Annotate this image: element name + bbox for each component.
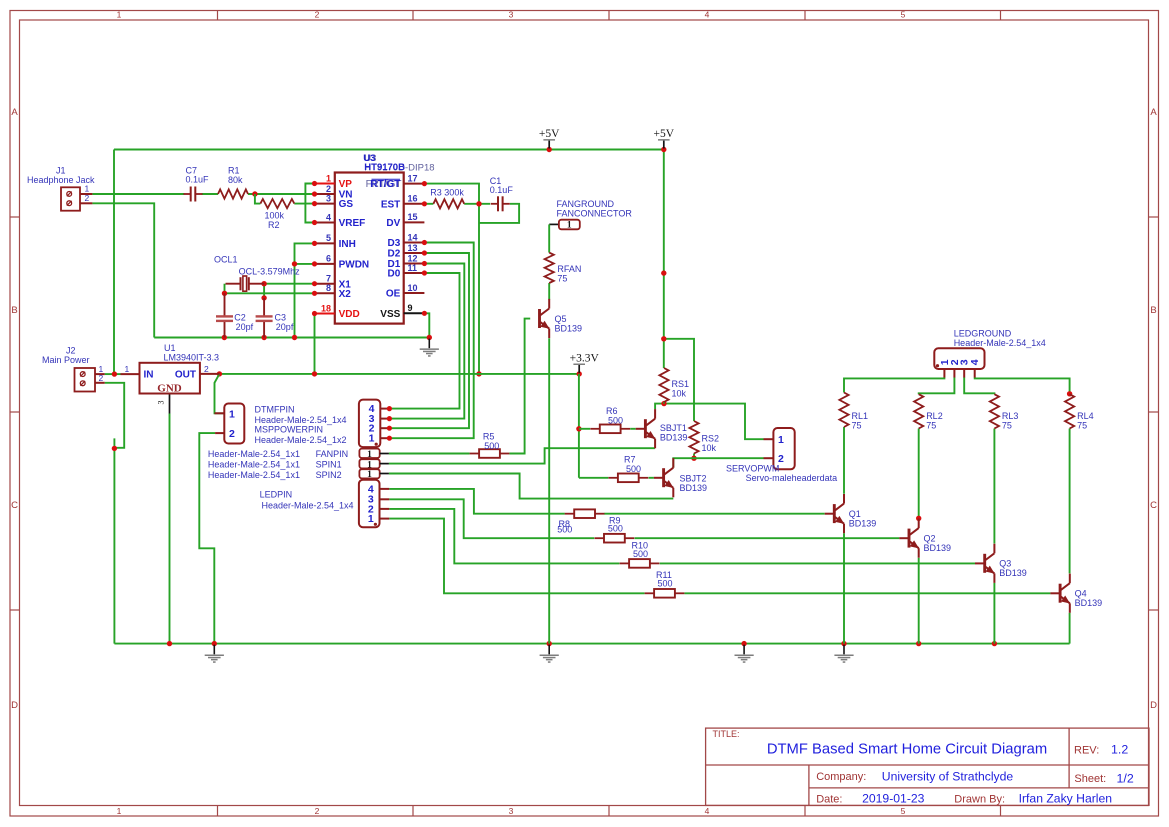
connector LEDPIN header 1x4 bbox=[359, 480, 380, 527]
svg-text:1: 1 bbox=[367, 470, 372, 480]
connector LEDGROUND header 1x4 bbox=[934, 348, 984, 369]
wire LEDPIN pin4 to R8 line bbox=[389, 489, 565, 514]
svg-text:3: 3 bbox=[157, 401, 166, 405]
svg-text:2019-01-23: 2019-01-23 bbox=[862, 792, 925, 806]
resistor R3 bbox=[433, 199, 464, 208]
wire VSS pin9 to ground bbox=[424, 313, 429, 337]
wire C7 to R1 bbox=[202, 193, 218, 195]
svg-text:OCL1: OCL1 bbox=[214, 254, 238, 264]
svg-text:SPIN2: SPIN2 bbox=[316, 470, 342, 480]
junction RS2 bottom bbox=[691, 456, 696, 461]
wire R1 node down to R2 bbox=[255, 194, 261, 204]
wire Q2 emitter to rail bbox=[918, 558, 920, 644]
svg-text:RL3: RL3 bbox=[1002, 411, 1019, 421]
pin 1 stub (left) bbox=[315, 183, 335, 185]
svg-text:Q2: Q2 bbox=[924, 534, 936, 544]
svg-text:D: D bbox=[11, 700, 18, 711]
junction RS1 bottom bbox=[661, 401, 666, 406]
junction +5V left symbol tap bbox=[547, 147, 552, 152]
svg-text:1: 1 bbox=[125, 364, 130, 374]
wire LEDGROUND pin1 to RL1 bbox=[844, 377, 944, 392]
svg-text:1.2: 1.2 bbox=[1111, 743, 1128, 757]
svg-text:R6: R6 bbox=[606, 406, 618, 416]
resistor RFAN bbox=[545, 253, 554, 283]
svg-text:75: 75 bbox=[1002, 421, 1012, 431]
svg-text:2: 2 bbox=[326, 184, 331, 194]
junction J2/+5V/IN node bbox=[112, 371, 117, 376]
svg-text:Header-Male-2.54_1x2: Header-Male-2.54_1x2 bbox=[255, 435, 347, 445]
svg-text:RS1: RS1 bbox=[672, 379, 690, 389]
wire +5V rail top bbox=[114, 149, 664, 151]
wire RS2 bottom to SERVOPWM pin2 line bbox=[693, 454, 695, 459]
svg-text:5: 5 bbox=[901, 9, 906, 19]
svg-text:3: 3 bbox=[326, 193, 331, 203]
wire J1 pin2 ground branch bbox=[92, 203, 154, 337]
svg-text:BD139: BD139 bbox=[849, 519, 877, 529]
svg-text:C: C bbox=[1150, 500, 1157, 511]
junction C2 top at X2 line bbox=[222, 291, 227, 296]
pin 3 stub (left) bbox=[315, 203, 335, 205]
wire Q3 emitter to rail bbox=[993, 583, 995, 644]
svg-text:Company:: Company: bbox=[816, 771, 866, 783]
junction R1/R2 node bbox=[252, 191, 257, 196]
connector FANPIN header 1x1 bbox=[359, 449, 379, 458]
wire R6 branch to base bbox=[579, 428, 590, 430]
svg-text:VP: VP bbox=[339, 179, 353, 190]
svg-text:LM3940IT-3.3: LM3940IT-3.3 bbox=[164, 352, 220, 362]
svg-text:2: 2 bbox=[315, 806, 320, 816]
wire RL2 to Q2 collector bbox=[918, 429, 920, 519]
pin 10 stub (right) bbox=[404, 292, 425, 294]
svg-text:R3 300k: R3 300k bbox=[430, 187, 464, 197]
junction U1 OUT pin bbox=[217, 371, 222, 376]
ground symbol right bbox=[843, 645, 845, 655]
svg-text:1: 1 bbox=[326, 173, 331, 183]
transistor Q4 BD139 bbox=[1060, 583, 1070, 603]
pin 18 stub (left) bbox=[315, 313, 335, 315]
resistor R10 bbox=[620, 562, 630, 564]
svg-text:Header-Male-2.54_1x4: Header-Male-2.54_1x4 bbox=[954, 338, 1046, 348]
wire Q1 emitter to rail bbox=[843, 533, 845, 643]
svg-text:Irfan Zaky Harlen: Irfan Zaky Harlen bbox=[1019, 792, 1112, 806]
IC U3 HT9170B DTMF decoder bbox=[335, 173, 404, 324]
junction Q5 emitter at rail bbox=[547, 641, 552, 646]
svg-text:BD139: BD139 bbox=[680, 483, 708, 493]
svg-text:X2: X2 bbox=[339, 289, 352, 300]
pin 6 stub (left) bbox=[315, 263, 335, 265]
svg-text:SBJT2: SBJT2 bbox=[680, 474, 707, 484]
svg-text:BD139: BD139 bbox=[660, 433, 688, 443]
wire LEDPIN pin1 to R11 line bbox=[389, 519, 644, 594]
wire R2 to IC pin3 GS bbox=[294, 203, 314, 205]
wire U1 OUT 3.3V rail bbox=[219, 373, 579, 375]
svg-text:PWDN: PWDN bbox=[339, 260, 370, 271]
svg-text:1/2: 1/2 bbox=[1117, 771, 1134, 785]
junction INH/PWDN node bbox=[292, 261, 297, 266]
wire SPIN1 to SBJT1 emitter bbox=[389, 448, 655, 463]
regulator U1 LM3940IT-3.3 bbox=[140, 363, 200, 394]
svg-text:16: 16 bbox=[408, 194, 418, 204]
svg-text:J2: J2 bbox=[66, 345, 76, 355]
svg-text:20pf: 20pf bbox=[276, 322, 294, 332]
svg-text:1: 1 bbox=[229, 408, 235, 420]
junction U1 GND at rail bbox=[167, 641, 172, 646]
svg-text:11: 11 bbox=[408, 263, 418, 273]
svg-text:Header-Male-2.54_1x1: Header-Male-2.54_1x1 bbox=[208, 459, 300, 469]
ground symbol center-left bbox=[548, 645, 550, 655]
wire J1 pin1 to C7 (audio in) bbox=[92, 193, 184, 195]
svg-text:D3: D3 bbox=[388, 238, 401, 249]
svg-text:REV:: REV: bbox=[1074, 745, 1099, 757]
junction Q2 emitter at rail bbox=[916, 641, 921, 646]
svg-text:BD139: BD139 bbox=[555, 323, 583, 333]
resistor R2 bbox=[260, 199, 294, 208]
svg-text:15: 15 bbox=[408, 212, 418, 222]
wire J2 pin1 to U1 IN bbox=[105, 373, 121, 375]
svg-text:RFAN: RFAN bbox=[557, 264, 581, 274]
svg-text:Header-Male-2.54_1x1: Header-Male-2.54_1x1 bbox=[208, 470, 300, 480]
resistor R1 bbox=[218, 189, 248, 198]
wire D0 IC pin11 to header bbox=[389, 273, 459, 409]
svg-text:1: 1 bbox=[778, 434, 784, 446]
junction RS1 top branch bbox=[661, 336, 666, 341]
svg-text:100k: 100k bbox=[265, 210, 285, 220]
crystal OCL1 bbox=[226, 283, 241, 285]
svg-text:75: 75 bbox=[852, 421, 862, 431]
svg-text:OCL-3.579Mhz: OCL-3.579Mhz bbox=[239, 267, 301, 277]
svg-text:Sheet:: Sheet: bbox=[1074, 773, 1106, 785]
wire OCL ground rail bbox=[154, 337, 429, 339]
wire VDD pin18 down to 3.3V rail bbox=[314, 314, 316, 374]
svg-text:2: 2 bbox=[315, 9, 320, 19]
svg-text:75: 75 bbox=[1077, 421, 1087, 431]
svg-text:+5V: +5V bbox=[539, 128, 560, 140]
junction Q3 emitter at rail bbox=[992, 641, 997, 646]
svg-text:5: 5 bbox=[901, 806, 906, 816]
wire LEDPIN pin2 to R10 line bbox=[389, 509, 619, 564]
wire LEDPIN pin3 to R9 line bbox=[389, 499, 594, 538]
wire X1 crystal left corner bbox=[224, 284, 226, 294]
pin 4 stub (left) bbox=[315, 222, 335, 224]
svg-text:INH: INH bbox=[339, 239, 356, 250]
svg-text:+3.3V: +3.3V bbox=[570, 353, 600, 365]
junction INH/PWDN at ground rail bbox=[292, 335, 297, 340]
resistor R9 bbox=[595, 537, 605, 539]
wire 3.3V branch down to R6/R7 bbox=[578, 374, 580, 478]
wire SBJT2 collector to SERVOPWM pin2 bbox=[673, 458, 763, 468]
wire RL1 to Q1 collector bbox=[843, 427, 845, 494]
resistor RL4 bbox=[1065, 394, 1074, 428]
wire D2 IC pin13 to header bbox=[389, 253, 469, 428]
svg-text:FANCONNECTOR: FANCONNECTOR bbox=[557, 208, 633, 218]
junction rail mid bbox=[741, 641, 746, 646]
svg-text:B: B bbox=[1150, 305, 1156, 316]
transistor Q3 BD139 bbox=[985, 553, 995, 573]
wire R5 to Q5 base bbox=[509, 319, 530, 454]
wire +5V rail right drop to RS1 bbox=[663, 150, 665, 369]
ground symbol left bbox=[213, 645, 215, 655]
svg-text:10k: 10k bbox=[672, 389, 687, 399]
svg-text:GS: GS bbox=[339, 199, 354, 210]
svg-text:EST: EST bbox=[381, 199, 400, 210]
svg-text:7: 7 bbox=[326, 274, 331, 284]
svg-text:Q4: Q4 bbox=[1075, 589, 1087, 599]
resistor R11 bbox=[645, 592, 655, 594]
wire U1 GND down to ground rail bbox=[169, 394, 171, 414]
svg-text:OUT: OUT bbox=[175, 370, 196, 381]
svg-text:4: 4 bbox=[705, 806, 710, 816]
svg-text:2: 2 bbox=[85, 193, 90, 203]
svg-text:3: 3 bbox=[509, 9, 514, 19]
connector J1 Headphone Jack bbox=[61, 187, 92, 210]
pin 15 stub (right) bbox=[404, 221, 425, 223]
pin 14 stub (right) bbox=[404, 242, 425, 244]
svg-text:GND: GND bbox=[157, 382, 182, 394]
svg-text:500: 500 bbox=[626, 464, 641, 474]
svg-text:BD139: BD139 bbox=[999, 568, 1027, 578]
capacitor C1 bbox=[491, 203, 498, 205]
wire D1 IC pin12 to header bbox=[389, 264, 464, 419]
svg-text:17: 17 bbox=[408, 173, 418, 183]
wire RFAN to Q5 collector bbox=[548, 283, 550, 300]
svg-text:LEDGROUND: LEDGROUND bbox=[954, 328, 1012, 338]
resistor RS2 bbox=[689, 421, 698, 454]
svg-text:VSS: VSS bbox=[380, 309, 400, 320]
svg-text:DTMF Based Smart Home Circuit: DTMF Based Smart Home Circuit Diagram bbox=[767, 742, 1047, 758]
svg-text:VREF: VREF bbox=[339, 218, 366, 229]
wire RS1/RS2 top branch bbox=[664, 339, 694, 421]
svg-text:Header-Male-2.54_1x4: Header-Male-2.54_1x4 bbox=[262, 500, 354, 510]
wire R11 to Q4 base bbox=[685, 592, 1051, 594]
svg-text:C: C bbox=[11, 500, 18, 511]
wire stub at J2 ground node bbox=[113, 438, 115, 643]
wire main ground rail bottom bbox=[114, 643, 1069, 645]
wire R10 to Q3 base bbox=[660, 562, 975, 564]
svg-text:A: A bbox=[1150, 107, 1157, 118]
junction pin17 net at 3.3V rail bbox=[476, 371, 481, 376]
svg-text:D2: D2 bbox=[388, 249, 401, 260]
svg-text:18: 18 bbox=[321, 303, 331, 313]
ground symbol at VSS bbox=[428, 339, 430, 349]
svg-text:B: B bbox=[11, 305, 17, 316]
connector SPIN2 header 1x1 bbox=[359, 469, 379, 478]
svg-text:9: 9 bbox=[408, 303, 413, 313]
svg-text:1: 1 bbox=[567, 221, 572, 231]
svg-text:20pf: 20pf bbox=[236, 322, 254, 332]
capacitor C3 bbox=[263, 298, 265, 316]
svg-text:R7: R7 bbox=[624, 454, 636, 464]
svg-text:C3: C3 bbox=[275, 312, 287, 322]
resistor RL1 bbox=[839, 393, 848, 428]
wire FANCONNECTOR stub bbox=[549, 223, 559, 225]
svg-text:1: 1 bbox=[117, 9, 122, 19]
wire LEDGROUND pin4 to RL4 bbox=[975, 377, 1070, 393]
svg-text:RL2: RL2 bbox=[926, 411, 943, 421]
svg-text:OE: OE bbox=[386, 289, 401, 300]
transistor SBJT1 BD139 bbox=[645, 419, 655, 439]
connector J2 Main Power bbox=[75, 368, 96, 392]
resistor R6 bbox=[590, 428, 600, 430]
wire Q4 emitter to rail bbox=[1069, 613, 1071, 644]
connector SPIN1 header 1x1 bbox=[359, 459, 379, 468]
svg-text:TITLE:: TITLE: bbox=[713, 729, 740, 739]
transistor Q2 BD139 bbox=[909, 528, 919, 548]
wire LEDGROUND pin3 to RL3 bbox=[964, 377, 994, 394]
junction C3 pin top bbox=[261, 295, 266, 300]
wire J2 pin2 down to ground rail bbox=[105, 383, 125, 448]
junction on +5V right drop bbox=[661, 270, 666, 275]
resistor RL2 bbox=[914, 394, 923, 428]
svg-text:LEDPIN: LEDPIN bbox=[260, 490, 293, 500]
svg-text:J1: J1 bbox=[56, 165, 66, 175]
svg-text:1: 1 bbox=[117, 806, 122, 816]
wire Q5 emitter down to ground rail bbox=[548, 338, 550, 643]
svg-text:R1: R1 bbox=[228, 165, 240, 175]
svg-text:C2: C2 bbox=[234, 312, 246, 322]
svg-text:RL1: RL1 bbox=[852, 411, 869, 421]
pin 12 stub (right) bbox=[404, 263, 425, 265]
ground symbol center bbox=[743, 645, 745, 655]
svg-text:75: 75 bbox=[926, 421, 936, 431]
wire D3 IC pin14 to header bbox=[389, 243, 473, 439]
junction J2 ground node bbox=[112, 446, 117, 451]
wire RS1 bottom lead bbox=[663, 402, 665, 404]
svg-text:8: 8 bbox=[326, 283, 331, 293]
svg-text:BD139: BD139 bbox=[1075, 598, 1103, 608]
junction C3 at ground rail bbox=[261, 335, 266, 340]
wire FANPIN to R5 bbox=[389, 453, 470, 455]
wire R3 to C1 junction bbox=[424, 203, 433, 205]
resistor R5 bbox=[470, 453, 480, 455]
svg-text:500: 500 bbox=[608, 524, 623, 534]
transistor Q1 BD139 bbox=[834, 504, 844, 524]
junction R3/C1/pin17 node bbox=[476, 201, 481, 206]
svg-text:D0: D0 bbox=[388, 269, 401, 280]
connector DTMFPIN header 1x2 bbox=[224, 404, 244, 444]
junction C2 at ground rail bbox=[222, 335, 227, 340]
svg-text:10k: 10k bbox=[702, 443, 717, 453]
svg-text:Q1: Q1 bbox=[849, 509, 861, 519]
wire U1 OUT to DTMFPIN pin1 bbox=[215, 374, 225, 413]
wire R1 to IC pin2 VN bbox=[248, 193, 315, 195]
svg-text:Q3: Q3 bbox=[999, 559, 1011, 569]
svg-text:2: 2 bbox=[229, 428, 235, 440]
svg-text:VDD: VDD bbox=[339, 309, 360, 320]
wire SPIN2 to SBJT2 emitter bbox=[389, 474, 673, 499]
svg-text:SPIN1: SPIN1 bbox=[316, 459, 342, 469]
pin 7 stub (left) bbox=[315, 283, 335, 285]
wire crystal right down to C3 bbox=[263, 284, 265, 298]
svg-text:3: 3 bbox=[509, 806, 514, 816]
wire R8 to Q1 base bbox=[604, 513, 824, 515]
wire R9 to Q2 base bbox=[635, 537, 900, 539]
pin 9 stub (right) bbox=[404, 312, 425, 314]
wire +5V rail left drop to U1 IN / J2 bbox=[113, 150, 115, 374]
svg-text:1: 1 bbox=[85, 184, 90, 194]
svg-text:4: 4 bbox=[326, 212, 331, 222]
wire crystal right to IC pin7 X1 bbox=[264, 283, 314, 285]
junction VSS ground rail end bbox=[427, 335, 432, 340]
junction DTMF ground at rail bbox=[212, 641, 217, 646]
junction R6 branch bbox=[576, 426, 581, 431]
wire FANCONNECTOR down to RFAN bbox=[548, 224, 550, 252]
connector SERVOPWM header 1x2 bbox=[773, 428, 794, 469]
wire IC pin17 RT/GT to C1 net bbox=[424, 184, 479, 374]
svg-text:A: A bbox=[11, 107, 18, 118]
svg-text:R5: R5 bbox=[483, 431, 495, 441]
svg-text:12: 12 bbox=[408, 253, 418, 263]
svg-text:10: 10 bbox=[408, 283, 418, 293]
svg-text:BD139: BD139 bbox=[924, 543, 952, 553]
svg-text:RL4: RL4 bbox=[1077, 411, 1094, 421]
wire RL3 to Q3 collector bbox=[993, 429, 995, 544]
svg-text:FANPIN: FANPIN bbox=[316, 449, 349, 459]
pin 2 stub (left) bbox=[315, 193, 335, 195]
svg-text:0.1uF: 0.1uF bbox=[490, 185, 514, 195]
pin 17 stub (right) bbox=[404, 183, 425, 185]
resistor RS1 bbox=[659, 368, 668, 402]
junction +3.3V symbol tap bbox=[577, 371, 582, 376]
title block bbox=[706, 728, 1149, 805]
svg-text:Main Power: Main Power bbox=[42, 355, 90, 365]
svg-text:500: 500 bbox=[658, 579, 673, 589]
junction crystal right bbox=[261, 281, 266, 286]
svg-text:500: 500 bbox=[608, 416, 623, 426]
pin 11 stub (right) bbox=[404, 272, 425, 274]
svg-text:500: 500 bbox=[633, 549, 648, 559]
resistor R8 bbox=[565, 513, 575, 515]
svg-text:500: 500 bbox=[557, 525, 572, 535]
svg-text:2: 2 bbox=[204, 364, 209, 374]
svg-text:IN: IN bbox=[144, 370, 154, 381]
pin 5 stub (left) bbox=[315, 242, 335, 244]
svg-text:FANGROUND: FANGROUND bbox=[557, 199, 615, 209]
svg-text:6: 6 bbox=[326, 254, 331, 264]
pin 13 stub (right) bbox=[404, 252, 425, 254]
svg-text:U1: U1 bbox=[164, 343, 176, 353]
svg-text:5: 5 bbox=[326, 233, 331, 243]
svg-text:0.1uF: 0.1uF bbox=[186, 175, 210, 185]
pin 8 stub (left) bbox=[315, 292, 335, 294]
junction on Q2 collector bbox=[916, 516, 921, 521]
svg-text:R2: R2 bbox=[268, 220, 280, 230]
svg-text:500: 500 bbox=[484, 441, 499, 451]
junction VDD at 3.3V rail bbox=[312, 371, 317, 376]
connector MSP data header 1x4 bbox=[359, 400, 380, 448]
transistor Q5 BD139 bbox=[540, 309, 550, 329]
svg-text:14: 14 bbox=[408, 232, 418, 242]
svg-text:80k: 80k bbox=[228, 175, 243, 185]
wire LEDGROUND pin2 to RL2 bbox=[919, 377, 955, 394]
svg-text:DTMFPIN: DTMFPIN bbox=[255, 404, 295, 414]
wire X2 line to IC pin8 bbox=[225, 292, 315, 294]
svg-text:1: 1 bbox=[368, 513, 374, 525]
svg-text:13: 13 bbox=[408, 243, 418, 253]
wire C1 right staple bbox=[479, 204, 519, 223]
wire INH/PWDN down to ground rail bbox=[294, 264, 296, 338]
transistor SBJT2 BD139 bbox=[664, 468, 674, 488]
svg-text:Header-Male-2.54_1x1: Header-Male-2.54_1x1 bbox=[208, 449, 300, 459]
wire R7 to SBJT2 base bbox=[579, 477, 608, 479]
wire SBJT1 collector to RS1/SERVOPWM pin1 bbox=[655, 404, 763, 440]
svg-text:2: 2 bbox=[99, 373, 104, 383]
svg-text:D: D bbox=[1150, 700, 1157, 711]
svg-text:Date:: Date: bbox=[816, 793, 842, 805]
svg-text:DV: DV bbox=[386, 218, 400, 229]
capacitor C2 bbox=[224, 293, 226, 316]
svg-text:Q5: Q5 bbox=[555, 314, 567, 324]
svg-text:Drawn By:: Drawn By: bbox=[954, 793, 1005, 805]
